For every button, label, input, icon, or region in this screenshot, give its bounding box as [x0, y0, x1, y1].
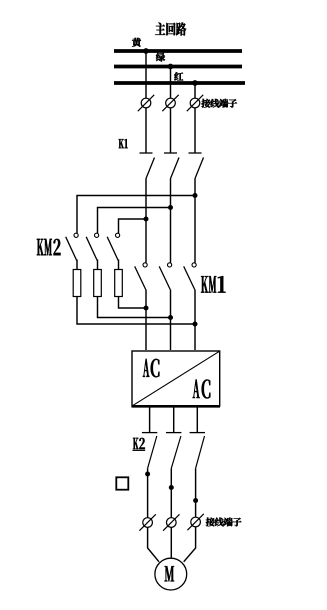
label K1: [119, 139, 128, 148]
wire out1 to K2: [149, 407, 151, 433]
terminal X1-3: [187, 95, 203, 111]
wire branch1 stub: [76, 260, 78, 270]
wire phase3 drop: [194, 83, 196, 98]
label 黄: [132, 38, 141, 47]
label 接线端子 bottom: [206, 518, 241, 527]
wire phase1 drop: [145, 51, 147, 98]
contactor KM1 pole3: [184, 263, 197, 290]
contactor KM2 pole3: [107, 233, 120, 260]
terminal X2-3: [187, 514, 203, 530]
label 红: [174, 72, 183, 80]
junction on L1: [143, 48, 149, 54]
wire branch1 bottom: [77, 297, 195, 325]
node branch3-L1 bottom: [144, 306, 149, 311]
wire motor3: [184, 527, 196, 562]
contactor K2 pole2: [166, 433, 181, 469]
node branch2-L2 bottom: [168, 315, 173, 320]
node branch1-L3 bottom: [193, 322, 198, 327]
wire motor2: [170, 527, 172, 557]
wire out3 to X2: [195, 468, 197, 517]
breaker K1 pole2: [164, 153, 179, 179]
label K2: [133, 438, 146, 450]
resistor R2: [94, 270, 102, 297]
node branch2-L2: [168, 205, 173, 210]
breaker K1 pole3: [189, 153, 204, 179]
wire phase3 to K1: [194, 108, 196, 153]
wire branch1 top: [77, 196, 195, 234]
title 主回路: [155, 22, 186, 35]
wire branch2 stub: [97, 260, 99, 270]
wire branch2 top: [98, 208, 171, 234]
wire motor1: [148, 527, 159, 562]
wire branch3 bottom: [119, 297, 147, 309]
contactor KM2 pole1: [66, 233, 79, 260]
contactor KM1 pole1: [135, 263, 148, 290]
wire branch2 bottom: [98, 297, 171, 318]
junction on L3: [192, 80, 198, 86]
terminal X1-2: [162, 95, 178, 111]
bus bar L1: [114, 49, 242, 53]
wire phase2 mid: [170, 179, 172, 263]
contactor KM2 pole2: [86, 233, 99, 260]
contactor KM1 pole2: [159, 263, 172, 290]
symbol square: [116, 477, 128, 489]
wire phase2 to K1: [170, 108, 172, 153]
wire phase1 to U1: [145, 290, 147, 351]
bus bar L3: [114, 81, 245, 85]
resistor R3: [115, 270, 123, 297]
resistor R1: [73, 270, 81, 297]
node out1: [145, 472, 150, 477]
junction on L2: [168, 64, 174, 70]
wire branch3 top: [119, 219, 147, 233]
contactor K2 pole3: [190, 433, 205, 469]
node out2: [169, 485, 174, 490]
node branch3-L1: [144, 217, 149, 222]
terminal X1-1: [138, 95, 154, 111]
label AC output: [193, 379, 211, 398]
motor M: [155, 558, 187, 590]
terminal X2-2: [163, 514, 179, 530]
terminal X2-1: [139, 514, 155, 530]
wire phase1 mid: [145, 179, 147, 263]
label KM2: [37, 239, 61, 255]
wire out3 to K2: [196, 407, 198, 433]
converter U1 box: [132, 351, 221, 406]
wire phase2 to U1: [170, 290, 172, 351]
wire phase3 mid: [194, 179, 196, 263]
wire phase1 to K1: [145, 108, 147, 153]
breaker K1 pole1: [140, 153, 155, 179]
contactor K2 pole1: [142, 433, 157, 469]
wire phase2 drop: [170, 67, 172, 99]
label 接线端子 top: [201, 99, 236, 108]
node out3: [193, 498, 198, 503]
node branch1-L3: [193, 193, 198, 198]
wire out1 to X2: [147, 468, 149, 517]
wire branch3 stub: [118, 260, 120, 270]
wire out2 to K2: [173, 407, 175, 433]
bus bar L2: [114, 65, 242, 69]
wire out2 to X2: [170, 468, 172, 517]
label 绿: [156, 53, 165, 62]
wire phase3 to U1: [194, 290, 196, 351]
label KM1: [201, 276, 225, 293]
label AC input: [143, 359, 159, 377]
